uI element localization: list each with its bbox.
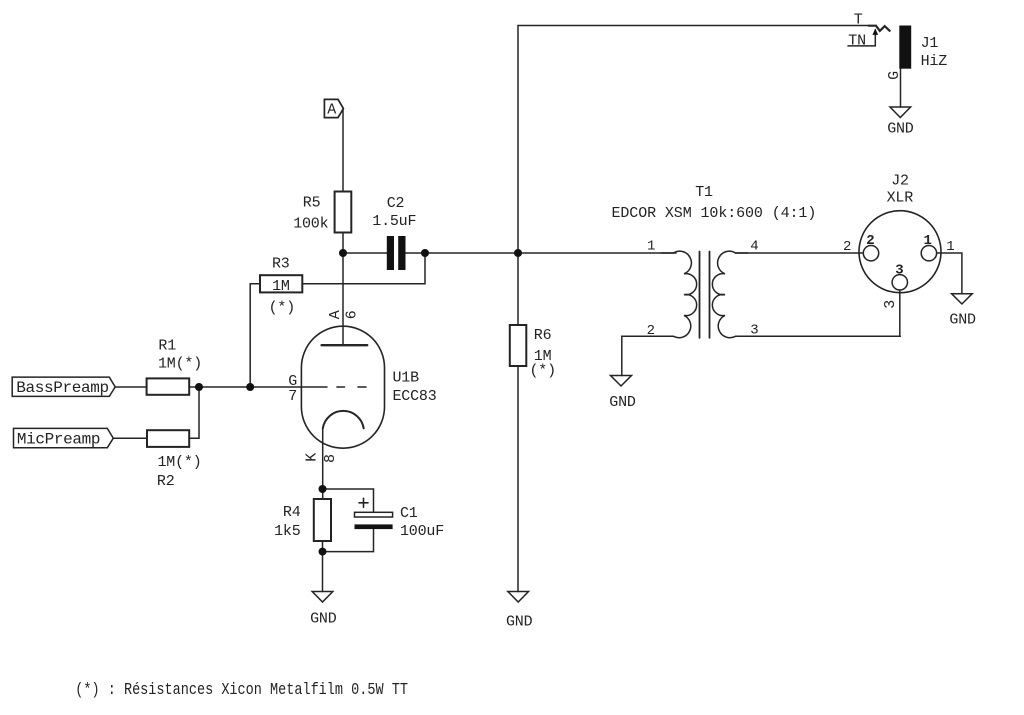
svg-text:HiZ: HiZ [921,53,948,70]
svg-text:7: 7 [288,388,297,405]
svg-text:C2: C2 [387,195,405,212]
svg-text:ECC83: ECC83 [393,388,437,405]
svg-text:(*): (*) [530,362,556,379]
svg-text:4: 4 [750,238,758,254]
svg-text:MicPreamp: MicPreamp [17,430,100,448]
svg-text:1: 1 [647,238,655,254]
svg-text:1k5: 1k5 [274,523,301,540]
svg-text:GND: GND [949,312,976,329]
svg-text:BassPreamp: BassPreamp [16,379,109,397]
svg-text:U1B: U1B [393,370,420,387]
svg-text:J2: J2 [891,173,909,190]
svg-text:A: A [327,102,336,119]
svg-text:3: 3 [750,322,758,338]
svg-text:TN: TN [848,32,866,49]
svg-text:GND: GND [609,394,636,411]
svg-text:1: 1 [923,233,931,249]
svg-text:1M: 1M [272,278,290,295]
svg-text:2: 2 [843,239,851,255]
svg-text:3: 3 [895,263,903,279]
svg-text:1M(*): 1M(*) [158,356,202,373]
svg-text:1M(*): 1M(*) [158,454,202,471]
svg-text:R4: R4 [283,504,301,521]
svg-text:XLR: XLR [887,189,914,206]
svg-text:R1: R1 [158,338,176,355]
svg-text:GND: GND [887,120,914,137]
svg-text:EDCOR XSM 10k:600 (4:1): EDCOR XSM 10k:600 (4:1) [612,205,817,222]
svg-text:GND: GND [310,610,337,627]
svg-text:2: 2 [647,323,655,339]
svg-text:A: A [327,310,344,319]
svg-text:100k: 100k [293,215,328,232]
svg-text:6: 6 [344,310,361,319]
svg-text:K: K [303,453,320,462]
svg-text:R6: R6 [534,327,552,344]
svg-text:C1: C1 [400,505,418,522]
svg-text:3: 3 [882,300,899,309]
svg-text:(*): (*) [269,300,295,317]
svg-text:2: 2 [866,233,874,249]
svg-text:T: T [854,12,863,29]
svg-text:1: 1 [946,239,954,255]
svg-text:100uF: 100uF [400,523,444,540]
svg-text:1.5uF: 1.5uF [372,213,416,230]
svg-text:8: 8 [322,454,339,463]
svg-text:T1: T1 [695,184,713,201]
svg-text:J1: J1 [921,35,939,52]
svg-text:GND: GND [506,614,533,631]
svg-text:(*) : Résistances Xicon Metalf: (*) : Résistances Xicon Metalfilm 0.5W T… [75,680,408,700]
svg-text:R3: R3 [272,255,290,272]
svg-text:G: G [886,71,903,80]
svg-text:R2: R2 [157,473,175,490]
svg-text:R5: R5 [303,195,321,212]
